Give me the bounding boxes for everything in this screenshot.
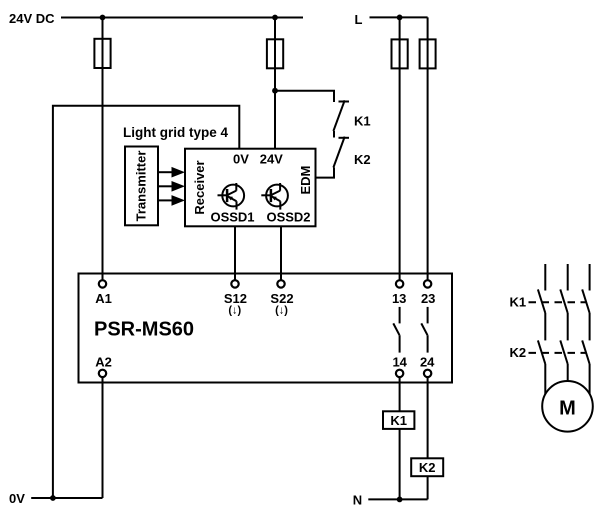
light beam arrow 3 [158,195,185,206]
fuse F2 [267,39,283,68]
svg-text:0V: 0V [233,152,249,167]
svg-text:(↓): (↓) [228,304,241,316]
wire 0V rail up to A2 [102,377,104,498]
svg-text:K1: K1 [354,114,371,129]
svg-text:24V DC: 24V DC [9,11,55,26]
terminal 24 [424,370,431,377]
wire phase 3 between contactors [589,313,591,340]
relay box PSR-MS60 [79,274,453,383]
transmitter box [125,147,158,226]
svg-text:23: 23 [421,291,435,306]
wire receiver 0V pin up-left-down to 0V rail [53,106,239,498]
svg-text:(↓): (↓) [275,304,288,316]
wire phase 3 to motor [589,364,591,394]
svg-text:K2: K2 [419,460,436,475]
svg-text:OSSD2: OSSD2 [266,209,310,224]
svg-text:K2: K2 [510,345,527,360]
wire from 24V rail down to A1 [102,18,104,281]
svg-text:Light grid type 4: Light grid type 4 [123,125,228,140]
svg-text:14: 14 [392,354,407,369]
svg-text:24V: 24V [260,152,283,167]
terminal S12 [231,280,238,287]
wire terminal 24 down to coil K2 [427,377,429,458]
wire from 24V rail down to receiver 24V pin [274,18,276,149]
svg-text:0V: 0V [9,491,25,506]
wire N rail [368,498,427,500]
svg-text:PSR-MS60: PSR-MS60 [94,319,194,341]
svg-text:L: L [355,12,363,27]
wire phase 2 to motor [567,364,569,381]
transistor Q1 OSSD1 output [218,183,245,210]
junction dot on 24V rail at A1 branch [100,15,106,21]
fuse F1 [94,39,110,68]
svg-text:OSSD1: OSSD1 [210,209,254,224]
wire OSSD1 pin down to S12 [234,226,236,280]
svg-text:EDM: EDM [298,166,313,195]
svg-text:13: 13 [392,291,406,306]
wire phase 1 between contactors [544,313,546,340]
svg-text:Receiver: Receiver [192,160,207,214]
contact K1 (NC feedback contact) [333,100,349,131]
wire from L rail down to terminal 13 [399,17,401,280]
terminal 14 [396,370,403,377]
wire motor phase 2 supply [567,264,569,291]
terminal A2 [99,370,106,377]
wire from L rail down to terminal 23 [427,17,429,280]
wire motor phase 3 supply [589,264,591,291]
wire coil K1 to N rail [399,429,401,500]
fuse F3 [392,39,408,68]
terminal 13 [396,280,403,287]
terminal A1 [99,280,106,287]
junction dot on 24V rail at receiver branch [272,15,278,21]
terminal S22 [277,280,284,287]
svg-text:A2: A2 [95,355,112,370]
junction dot at EDM branch [272,88,278,94]
svg-text:Transmitter: Transmitter [134,151,149,222]
svg-text:24: 24 [420,354,435,369]
contactor K2 main contacts [529,340,590,364]
svg-text:K1: K1 [390,413,407,428]
fuse F4 [420,39,436,68]
junction dot on N rail [397,497,403,503]
contact K2 (NC feedback contact) [333,137,349,168]
receiver box U1 [185,149,316,227]
svg-text:M: M [559,397,576,419]
light beam arrow 1 [158,167,185,178]
wire from K2 contact to EDM pin [316,168,335,178]
wire L rail [370,16,428,18]
svg-text:A1: A1 [95,291,112,306]
junction dot on 0V rail [50,495,56,501]
wire terminal 14 down to coil K1 [399,377,401,411]
svg-text:N: N [353,492,362,507]
wire coil K2 to N rail [427,476,429,499]
motor M1 [542,381,593,432]
wire between K1 and K2 contacts [333,131,335,138]
junction dot on L rail [397,15,403,21]
wire from EDM branch to K1 contact [275,91,334,102]
wire phase 2 between contactors [567,313,569,340]
wire 0V rail [31,497,102,499]
svg-text:K1: K1 [510,295,527,310]
wire 24V DC rail [61,17,303,19]
light beam arrow 2 [158,181,185,192]
transistor Q2 OSSD2 output [261,183,288,210]
wire OSSD2 pin down to S22 [280,226,282,280]
terminal 23 [424,280,431,287]
wire phase 1 to motor [544,364,546,394]
svg-text:K2: K2 [354,152,371,167]
contactor K1 main contacts [529,289,590,313]
wire motor phase 1 supply [544,264,546,291]
contact 13-14 (safety output) [393,307,399,353]
contact 23-24 (safety output) [421,307,427,353]
coil K2 [411,458,443,476]
coil K1 [383,411,414,429]
